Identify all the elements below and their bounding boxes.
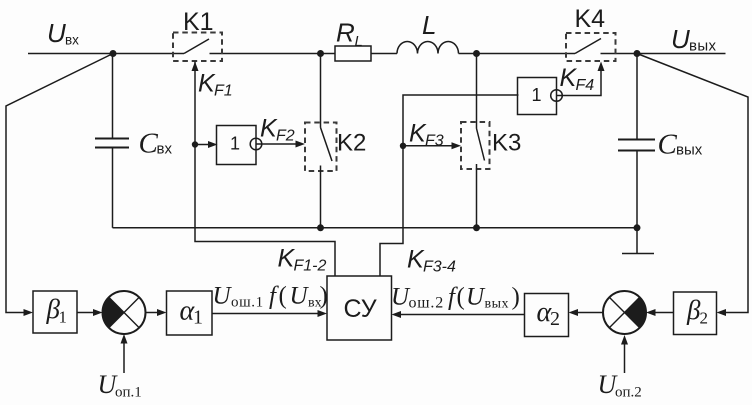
wire KF1 control line xyxy=(195,62,335,277)
wire top rail K1 to R_L xyxy=(210,53,336,55)
svg-text:вых: вых xyxy=(485,297,510,312)
arrow into CU right xyxy=(392,311,402,318)
ground xyxy=(622,228,654,254)
svg-text:ош.1: ош.1 xyxy=(231,295,264,311)
svg-text:2: 2 xyxy=(550,308,560,330)
block beta2 xyxy=(674,292,717,335)
wire feedback left diagonal xyxy=(6,54,113,313)
wire KF2 to K2 xyxy=(256,143,297,145)
svg-text:C: C xyxy=(139,128,159,160)
arrow KF2 into K2 xyxy=(296,141,306,148)
arrow into comparator2 xyxy=(646,309,656,316)
svg-text:(: ( xyxy=(279,283,287,310)
svg-text:вх: вх xyxy=(65,33,79,48)
wire KF3 arrow line xyxy=(403,145,453,147)
svg-text:C: C xyxy=(658,129,678,161)
svg-text:F1: F1 xyxy=(214,83,233,100)
wire alpha1 to CU xyxy=(212,313,319,315)
wire comparator1 to alpha1 xyxy=(146,312,160,314)
svg-text:L: L xyxy=(355,33,363,50)
svg-text:F1-2: F1-2 xyxy=(294,258,327,275)
wire KF4 to K4 xyxy=(557,69,602,96)
wire KF3 control line xyxy=(380,95,519,276)
node top junction at K3 xyxy=(473,50,480,57)
wire top rail K4 to right end xyxy=(601,53,726,55)
arrow into comparator1 xyxy=(93,309,103,316)
arrowheads xyxy=(24,62,727,345)
svg-text:1: 1 xyxy=(532,85,542,105)
svg-text:U: U xyxy=(213,283,233,310)
arrow into alpha1 xyxy=(157,309,167,316)
comparator 2 (circle with cross) xyxy=(603,291,646,334)
svg-text:U: U xyxy=(671,24,690,54)
capacitor C_vyx xyxy=(618,54,655,228)
svg-text:U: U xyxy=(466,284,486,311)
svg-text:(: ( xyxy=(457,284,465,311)
switch K1 (dashed box with lever) xyxy=(173,33,222,62)
svg-text:U: U xyxy=(290,283,310,310)
wire alpha2 to CU xyxy=(400,314,525,316)
logic block 1 (right, with inverter bubble) xyxy=(518,78,563,115)
wire bottom rail xyxy=(113,227,641,229)
arrow into CU left xyxy=(318,310,328,317)
wire top rail R_L to L xyxy=(371,53,397,55)
node KF3 junction xyxy=(400,143,406,149)
node bottom junction at K2 xyxy=(317,224,324,231)
arrow Uop1 into comparator1 xyxy=(121,334,128,344)
svg-text:оп.2: оп.2 xyxy=(615,385,642,401)
wire Uop1 arrow xyxy=(123,342,125,373)
block beta1 xyxy=(33,291,77,333)
inductor L xyxy=(397,42,459,54)
svg-text:вх: вх xyxy=(157,141,173,158)
wire beta1 to comparator xyxy=(77,312,95,314)
svg-text:K3: K3 xyxy=(492,130,521,157)
arrow KF4 into K4 xyxy=(598,62,605,72)
svg-text:K2: K2 xyxy=(337,130,366,157)
svg-text:вых: вых xyxy=(689,38,717,55)
control unit CU box xyxy=(327,276,392,340)
svg-text:оп.1: оп.1 xyxy=(115,385,142,401)
node bottom junction at ground xyxy=(634,224,641,231)
arrow into beta2 xyxy=(717,309,727,316)
svg-text:1: 1 xyxy=(193,307,203,329)
switch K3 (dashed box with lever) xyxy=(461,54,490,228)
comparator 1 (circle with cross) xyxy=(103,291,146,334)
switch K4 (dashed box with lever) xyxy=(566,33,616,61)
resistor R_L xyxy=(335,46,371,61)
arrow KF2 into block1 left xyxy=(208,141,218,148)
svg-text:ош.2: ош.2 xyxy=(409,295,445,312)
svg-text:L: L xyxy=(422,10,436,40)
svg-text:F3: F3 xyxy=(425,133,444,150)
node KF2 junction xyxy=(192,141,198,147)
svg-text:): ) xyxy=(512,284,520,311)
arrow into alpha2 xyxy=(569,309,579,316)
wire feedback right diagonal xyxy=(637,54,748,313)
arrow into beta1 xyxy=(24,309,34,316)
svg-text:вых: вых xyxy=(676,142,703,159)
wire Uop2 arrow xyxy=(624,343,626,373)
node bottom junction at K3 xyxy=(473,224,480,231)
wire beta2 to comparator2 xyxy=(655,312,674,314)
svg-text:1: 1 xyxy=(230,134,240,154)
block alpha2 xyxy=(525,294,569,337)
arrow KF3 into K3 xyxy=(452,142,462,149)
arrow Uop2 into comparator2 xyxy=(621,335,628,345)
svg-text:СУ: СУ xyxy=(344,295,377,323)
node top junction at C_vx xyxy=(110,50,117,57)
svg-text:K1: K1 xyxy=(183,8,214,36)
node top junction at K2 xyxy=(317,50,324,57)
svg-text:): ) xyxy=(320,283,328,310)
svg-text:1: 1 xyxy=(59,308,68,327)
capacitor C_vx xyxy=(95,54,129,228)
svg-text:F4: F4 xyxy=(576,77,595,94)
wire KF2 junction to block xyxy=(195,144,210,146)
arrow KF1 into K1 xyxy=(192,62,199,72)
svg-text:F2: F2 xyxy=(276,128,295,145)
logic block 1 (left, with inverter bubble) xyxy=(217,126,262,165)
node top junction at C_vyx xyxy=(634,50,641,57)
svg-text:K4: K4 xyxy=(575,5,606,33)
svg-text:U: U xyxy=(47,18,66,48)
wire top rail left segment xyxy=(28,53,184,55)
block alpha1 xyxy=(167,291,213,335)
svg-text:2: 2 xyxy=(700,309,709,328)
wire top rail L to K4 xyxy=(459,53,576,55)
svg-text:R: R xyxy=(336,18,355,48)
switch K2 (dashed box with lever) xyxy=(305,54,337,228)
svg-text:F3-4: F3-4 xyxy=(423,259,456,276)
wire comparator2 to alpha2 xyxy=(577,312,603,314)
